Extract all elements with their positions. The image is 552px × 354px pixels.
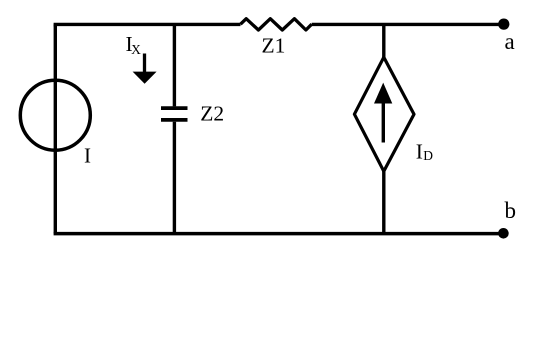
svg-text:b: b — [505, 198, 517, 223]
wire: left branch vertical (through current source) — [54, 24, 57, 233]
dependent current source ID (diamond) — [354, 57, 414, 171]
wire: middle branch, bottom segment (Z2 to bottom net) — [173, 122, 176, 234]
svg-text:a: a — [505, 29, 515, 54]
wire: top net, right segment (resistor to terminal a) — [312, 23, 504, 26]
svg-text:IX: IX — [126, 32, 142, 57]
current arrow inside ID (upward arrow) — [374, 83, 392, 143]
svg-text:ID: ID — [416, 139, 433, 163]
wire: right branch, bottom segment (dependent source to bottom net) — [382, 171, 385, 234]
capacitor Z2 (two plates) — [161, 108, 188, 120]
terminal a (node dot) — [498, 18, 509, 29]
svg-text:I: I — [84, 144, 91, 168]
svg-text:Z1: Z1 — [262, 34, 286, 58]
terminal b (node dot) — [498, 228, 509, 239]
svg-text:Z2: Z2 — [200, 101, 224, 125]
current source I (circle) — [20, 80, 90, 150]
wire: top net, left segment (top-left corner to resistor) — [55, 24, 240, 26]
wire: right branch, top segment (top net to dependent source) — [382, 24, 385, 58]
wire: middle branch, top segment (top net to Z2) — [173, 24, 176, 106]
current arrow Ix (downward arrow) — [133, 54, 157, 84]
wire: bottom net (left corner to terminal b) — [54, 232, 504, 236]
resistor Z1 — [241, 19, 312, 30]
